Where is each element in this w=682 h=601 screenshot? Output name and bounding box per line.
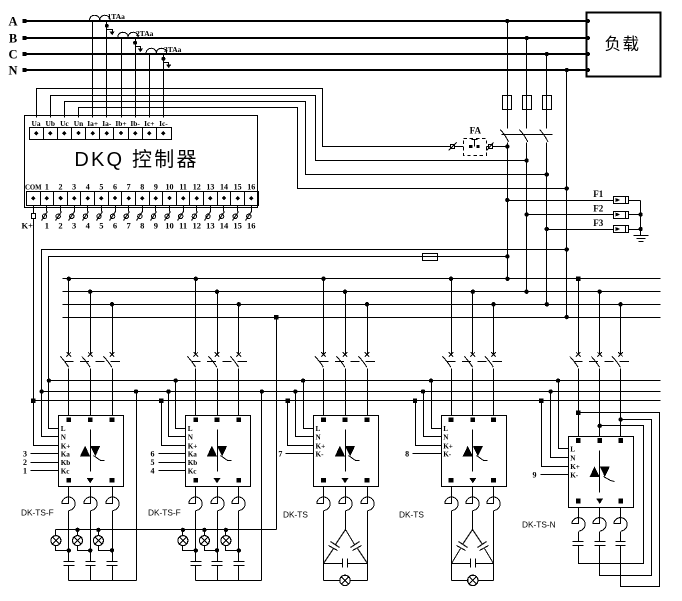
terminal strip: Ua Ub Uc Un Ia+ Ia- Ib+ Ib- Ic+ Ic-: [30, 128, 172, 140]
wire: U5 cap A loop to phase B drop: [579, 426, 644, 564]
wire: phase C main line: [24, 53, 587, 55]
capacitor C9 (delta bottom): [324, 563, 343, 565]
wire: L rail (module supply phase): [49, 380, 661, 382]
ground (earth symbol): [634, 235, 649, 237]
svg-text:DKQ 控制器: DKQ 控制器: [74, 148, 198, 171]
lamp HL (delta indicator): [324, 580, 341, 582]
junction: F1 branch on feeder: [505, 198, 509, 202]
capacitor C8 (delta side): [346, 530, 355, 545]
wire: right phase down to delta corner: [367, 511, 369, 581]
svg-text:11: 11: [179, 221, 187, 231]
capacitor C6: [234, 561, 245, 563]
wire: control stub 1 to U1: [31, 470, 59, 472]
transformer hook (module U3 output 367.0): [361, 487, 374, 511]
svg-text:15: 15: [233, 221, 242, 231]
wire: phase wire hook to capacitor: [195, 511, 197, 562]
svg-text:14: 14: [220, 221, 229, 231]
junction: lamp tap on lamp bus: [224, 528, 228, 532]
switch K12 (output link with slash): [196, 206, 198, 212]
svg-text:6: 6: [113, 183, 117, 192]
transformer hook (module U2 output 195.8): [189, 487, 202, 511]
wire: fuse to breaker contact: [507, 110, 509, 129]
switch K16 (output link with slash): [251, 206, 253, 212]
svg-text:2: 2: [58, 221, 62, 231]
svg-text:Ib-: Ib-: [130, 119, 140, 128]
svg-text:K+: K+: [443, 442, 453, 450]
svg-text:1: 1: [23, 467, 27, 476]
wire: phase feeder from main to fuse: [507, 22, 509, 96]
wire: 2TAa secondary s2: [135, 39, 137, 118]
svg-text:Ia+: Ia+: [87, 119, 98, 128]
junction: neutral tap to feeder: [565, 68, 569, 72]
wire: control stub 3 to U1: [31, 453, 59, 455]
wire: phase wire hook to capacitor: [112, 511, 114, 562]
wire: capacitor to bottom bus: [238, 566, 240, 581]
svg-text:4: 4: [86, 183, 90, 192]
module U4 DK-TS phase drops with disconnect switches: [451, 279, 453, 354]
svg-text:FA: FA: [470, 126, 482, 136]
op-amp substitute: controller box DKQ 控制器: [25, 116, 258, 208]
svg-text:Ub: Ub: [45, 119, 54, 128]
svg-text:6: 6: [113, 221, 117, 231]
svg-text:COM: COM: [25, 185, 42, 192]
svg-text:负载: 负载: [605, 35, 641, 54]
junction: N feed on neutral feeder: [565, 247, 569, 251]
junction: U1 riser on N rail: [134, 389, 138, 393]
wire: Ub sense to phase B feeder: [51, 96, 527, 161]
svg-text:DK-TS-F: DK-TS-F: [21, 508, 54, 518]
wire: 1TAa secondary s1: [92, 22, 94, 118]
triac VT1 (inside module U1): [90, 430, 92, 472]
switch K4 (output link with slash): [87, 206, 89, 212]
svg-text:DK-TS: DK-TS: [399, 510, 424, 520]
switch QF pole 3 (breaker blade): [540, 130, 548, 142]
wire: module U1 capacitor common bus: [69, 580, 137, 582]
wire: 1TAa secondary s2: [106, 22, 108, 118]
wire: breaker to bus: [526, 143, 528, 292]
junction: bus taps for module U4: [449, 277, 453, 281]
wire: neutral feeder (straight to bus N): [566, 71, 568, 318]
junction: Uc line on phase C feeder: [545, 172, 549, 176]
svg-text:N: N: [61, 434, 67, 442]
junction: Un line on neutral feeder: [565, 186, 569, 190]
wire: control stub 2 to U1: [31, 462, 59, 464]
svg-text:16: 16: [247, 183, 255, 192]
wire: delta apex feed: [345, 511, 347, 530]
triac VT2 (inside module U2): [217, 430, 219, 472]
svg-text:9: 9: [533, 470, 537, 479]
wire: control stub 5 to U2: [159, 462, 186, 464]
svg-text:Un: Un: [74, 119, 83, 128]
junction: bus taps for module U5: [576, 277, 580, 281]
svg-text:Ka: Ka: [61, 451, 71, 459]
junction: phase B tap to feeder: [524, 36, 528, 40]
junction: F3 branch on feeder: [545, 227, 549, 231]
triac VT4 (inside module U4): [472, 430, 474, 472]
wire: breaker gang linkage (solid): [502, 134, 553, 136]
svg-text:3TAa: 3TAa: [164, 45, 182, 54]
svg-text:L: L: [570, 446, 575, 454]
svg-text:N: N: [570, 454, 576, 462]
svg-text:1: 1: [45, 183, 49, 192]
svg-text:Kb: Kb: [61, 459, 71, 467]
wire: switch gang dashed linkage (module U1): [65, 361, 126, 363]
svg-text:9: 9: [154, 221, 158, 231]
wire: K+ tap of U2 from K+ rail: [162, 401, 186, 446]
svg-text:Kc: Kc: [61, 468, 71, 476]
pin row: bottom terminals of U1: [67, 478, 72, 483]
terminal clamp (FA left): [451, 145, 455, 149]
wire: breaker to bus: [546, 143, 548, 305]
capacitor C2: [86, 561, 96, 563]
svg-text:Ua: Ua: [32, 119, 41, 128]
ground arrow (3TAa secondary earth): [161, 57, 165, 61]
wire: capacitor to bottom bus: [217, 566, 219, 581]
module U3 DK-TS phase drops with disconnect switches: [323, 279, 325, 354]
svg-text:4: 4: [151, 467, 155, 476]
wire: phase A main line: [24, 20, 587, 22]
svg-text:L: L: [443, 425, 448, 433]
pin row: bottom terminals of U3: [321, 478, 326, 483]
svg-text:10: 10: [166, 183, 174, 192]
wire: F3 to earth bus: [629, 229, 641, 231]
svg-text:8: 8: [140, 183, 144, 192]
wire: L tap of U4 from L rail: [432, 381, 442, 429]
junction: F2 branch on feeder: [524, 212, 528, 216]
transformer hook (module U4 output 493.5): [487, 487, 500, 511]
ground arrow (1TAa secondary earth): [105, 24, 109, 28]
junction: lamp on phase wire: [110, 548, 114, 552]
wire: control stub 7 to U3: [286, 453, 314, 455]
svg-text:L: L: [61, 425, 66, 433]
wire: N feed (corner) to neutral feeder: [42, 250, 567, 437]
svg-text:1: 1: [45, 221, 49, 231]
wire: N rail (module supply neutral): [42, 391, 661, 393]
module U4 box (DK-TS): [442, 416, 507, 487]
junction: loop on phase A drop: [576, 411, 580, 415]
switch K6 (output link with slash): [115, 206, 117, 212]
wire: Ua sense (terminal Ua up, over, down to FA contact line): [37, 89, 451, 147]
wire: fuse to breaker contact: [546, 110, 548, 129]
wire: Uc sense to phase C feeder: [65, 102, 547, 175]
junction: lamp tap on lamp bus: [96, 528, 100, 532]
pin row: bottom terminals of U5: [576, 499, 581, 504]
svg-text:15: 15: [234, 183, 242, 192]
lamp HL2 (indicator): [77, 530, 79, 536]
junction: bus taps for module U1: [67, 277, 71, 281]
svg-text:F1: F1: [593, 189, 603, 199]
wire: Un sense to neutral feeder: [79, 108, 567, 189]
module U1 DK-TS-F phase drops with disconnect switches: [68, 279, 70, 354]
pin row: top terminals of U5: [576, 438, 581, 443]
transformer hook (module U1 output 90.2): [84, 487, 97, 511]
junction: lamp tap on lamp bus: [75, 528, 79, 532]
svg-text:B: B: [9, 32, 17, 46]
wire: control stub 6 to U2: [159, 453, 186, 455]
svg-text:12: 12: [193, 183, 201, 192]
wire: K+ rail (control common): [34, 400, 661, 402]
junction: Ub line on phase B feeder: [524, 158, 528, 162]
svg-text:Ka: Ka: [188, 451, 198, 459]
svg-text:3: 3: [72, 183, 76, 192]
capacitor C13 (U5 phase A): [578, 532, 580, 542]
switch K2 (output link with slash): [60, 206, 62, 212]
load box 负载: [587, 13, 661, 77]
capacitor C3: [107, 561, 118, 563]
wire: capacitor to bottom bus: [90, 566, 92, 581]
svg-text:12: 12: [193, 221, 202, 231]
junction: U2 riser on N rail: [260, 389, 264, 393]
fuse FU2 (feeder fuse): [523, 96, 532, 110]
wire: capacitor to bottom bus: [195, 566, 197, 581]
capacitor C15 (U5 phase C): [620, 532, 622, 542]
wire: K+ tap of U5 from K+ rail: [542, 401, 569, 467]
svg-text:16: 16: [247, 221, 256, 231]
wire: lamp to phase wire: [99, 546, 113, 551]
transformer hook (module U2 output 217.0): [211, 487, 224, 511]
switch QF pole 1 (breaker blade): [500, 130, 508, 142]
junction: loop on phase C drop: [618, 417, 622, 421]
transformer hook (module U5 output 599.7): [593, 508, 606, 532]
transformer hook (module U4 output 472.8): [466, 487, 479, 511]
svg-text:3: 3: [72, 221, 76, 231]
junction: bus taps for module U2: [194, 277, 198, 281]
wire: bus B: [63, 291, 661, 293]
wire: F3 branch line: [547, 229, 614, 231]
junction: lamp on phase wire: [67, 548, 71, 552]
wire: U5 cap B loop to phase C drop: [600, 420, 652, 576]
wire: lamp to phase wire: [226, 546, 239, 551]
wire: Ua sense after FA to phase A feeder: [493, 146, 508, 148]
wire: right phase down to delta corner: [493, 511, 495, 581]
svg-text:1TAa: 1TAa: [108, 12, 126, 21]
current transformer 3TAa: [146, 48, 167, 53]
wire: 3TAa secondary s2: [163, 55, 165, 118]
switch K8 (output link with slash): [142, 206, 144, 212]
switch K1 (output link with slash): [46, 206, 48, 212]
wire: control stub 9 to U5: [541, 474, 569, 476]
switch K9 (output link with slash): [155, 206, 157, 212]
svg-text:DK-TS-F: DK-TS-F: [148, 508, 181, 518]
switch K3 (output link with slash): [74, 206, 76, 212]
transformer hook (module U2 output 238.8): [232, 487, 245, 511]
lamp HL3 (indicator): [98, 530, 100, 536]
svg-text:C: C: [8, 48, 17, 62]
lamp HL1 (indicator): [55, 530, 57, 536]
wire: U5 cap C loop to phase A drop: [579, 413, 660, 587]
lamp HL4 (indicator): [182, 530, 184, 536]
svg-text:N: N: [188, 434, 194, 442]
transformer hook (module U5 output 578.2): [572, 508, 585, 532]
svg-text:2: 2: [59, 183, 63, 192]
wire: L tap of U2 from L rail: [176, 381, 186, 429]
wire: left phase down to delta corner: [323, 511, 325, 581]
wire: phase B main line: [24, 37, 587, 39]
wire: delta apex feed: [472, 511, 474, 530]
junction: feeder B to bus B: [524, 290, 528, 294]
module U2 box (DK-TS-F): [186, 416, 251, 487]
svg-text:4: 4: [86, 221, 91, 231]
svg-text:7: 7: [127, 183, 131, 192]
svg-text:Ic-: Ic-: [159, 119, 168, 128]
junction: lamp tap on lamp bus: [202, 528, 206, 532]
svg-text:N: N: [316, 434, 322, 442]
svg-text:K+: K+: [316, 442, 326, 450]
wire: phase wire hook to capacitor: [90, 511, 92, 562]
ground arrow (2TAa secondary earth): [133, 41, 137, 45]
pin row: bottom terminals of U2: [194, 478, 199, 483]
switch K13 (output link with slash): [210, 206, 212, 212]
wire: phase wire hook to capacitor: [238, 511, 240, 562]
switch K14 (output link with slash): [223, 206, 225, 212]
svg-text:5: 5: [99, 221, 103, 231]
wire: K+ feed vertical from COM link down to K+ rail and module 1 pin: [34, 219, 59, 446]
capacitor C11 (delta side): [473, 530, 483, 545]
junction: module U1 K+ tap (rail start): [31, 399, 35, 403]
wire: N tap of U2 from N rail: [169, 392, 186, 437]
wire: bus N: [63, 317, 661, 319]
wire: control stub 8 to U4: [413, 453, 442, 455]
junction: loop on phase B drop: [598, 424, 602, 428]
svg-text:Uc: Uc: [60, 119, 69, 128]
junction: feeder N to bus N: [565, 315, 569, 319]
wire: K+ tap of U3 from K+ rail: [288, 401, 314, 446]
svg-text:14: 14: [220, 183, 228, 192]
svg-text:DK-TS-N: DK-TS-N: [522, 520, 556, 530]
capacitor C7 (delta side): [336, 530, 346, 545]
switch K7 (output link with slash): [128, 206, 130, 212]
capacitor C14 (U5 phase B): [599, 532, 601, 542]
svg-text:10: 10: [165, 221, 174, 231]
wire: bus A: [63, 278, 661, 280]
capacitor C5: [212, 561, 223, 563]
transformer hook (module U1 output 68.8): [62, 487, 75, 511]
svg-text:9: 9: [154, 183, 158, 192]
wire: control stub 4 to U2: [159, 470, 186, 472]
switch K11 (output link with slash): [183, 206, 185, 212]
svg-text:K-: K-: [570, 471, 579, 479]
terminal strip: COM 1..16: [27, 192, 259, 206]
junction: lamp bus riser on bus N: [274, 315, 278, 319]
transformer hook (module U3 output 323.5): [317, 487, 330, 511]
fuse FU4 (L feed fuse): [423, 254, 438, 261]
svg-text:L: L: [316, 425, 321, 433]
pin row: top terminals of U3: [321, 418, 326, 423]
fuse FU1 (feeder fuse): [503, 96, 512, 110]
wire: phase N main line: [24, 69, 587, 71]
capacitor C4: [191, 561, 202, 563]
triac VT3 (inside module U3): [345, 430, 347, 472]
svg-text:13: 13: [206, 183, 214, 192]
wire: capacitor to bottom bus: [68, 566, 70, 581]
svg-text:DK-TS: DK-TS: [283, 510, 308, 520]
svg-text:K+: K+: [188, 442, 198, 450]
switch K5 (output link with slash): [101, 206, 103, 212]
wire: indicator lamp bus: [56, 529, 277, 531]
pin row: top terminals of U4: [449, 418, 454, 423]
module U1 box (DK-TS-F): [59, 416, 124, 487]
wire: U1 common riser to N rail: [136, 392, 138, 581]
wire: N tap of U5 from N rail: [551, 392, 569, 458]
wire: switch gang dashed linkage (module U3): [320, 361, 381, 363]
svg-text:Ic+: Ic+: [144, 119, 154, 128]
junction: module U1 N tap (rail start): [39, 389, 43, 393]
wire: switch gang dashed linkage (module U2): [192, 361, 253, 363]
wire: left phase down to delta corner: [451, 511, 453, 581]
svg-text:8: 8: [405, 450, 409, 459]
wire: F2 to earth bus: [629, 214, 641, 216]
junction: feeder A to bus A: [505, 277, 509, 281]
junction: L feed on phase A feeder: [505, 254, 509, 258]
wire: phase wire hook to capacitor: [217, 511, 219, 562]
transformer hook (module U5 output 620.6): [614, 508, 627, 532]
svg-text:7: 7: [278, 450, 282, 459]
svg-text:Ia-: Ia-: [102, 119, 112, 128]
wire: L feed with fuse to phase A feeder: [49, 257, 508, 429]
wire: FA line gap segments: [455, 146, 464, 148]
junction: lamp on phase wire: [237, 548, 241, 552]
connector K+ (square link): [32, 214, 36, 219]
wire: F2 branch line: [527, 214, 614, 216]
wire: N tap of U4 from N rail: [424, 392, 442, 437]
svg-text:N: N: [443, 434, 449, 442]
fuse FU3 (feeder fuse): [543, 96, 552, 110]
wire: 3TAa secondary s1: [149, 55, 151, 118]
wire: lamp bus riser to bus N: [276, 318, 278, 530]
svg-text:K-: K-: [316, 451, 325, 459]
wire: F1 to earth bus: [629, 200, 641, 202]
module U5 DK-TS-N phase drops with disconnect switches: [578, 279, 580, 354]
svg-text:A: A: [8, 15, 17, 29]
wire: COM to K+ link: [33, 206, 35, 214]
wire: arrester common earth vertical: [640, 201, 642, 236]
pin row: top terminals of U2: [194, 418, 199, 423]
wire: lamp to phase wire: [56, 546, 69, 551]
wire: 2TAa secondary s1: [121, 39, 123, 118]
junction: phase A tap to feeder: [505, 19, 509, 23]
transformer hook (module U1 output 112.0): [106, 487, 119, 511]
wire: phase feeder from main to fuse: [546, 55, 548, 96]
svg-text:K+: K+: [21, 221, 33, 231]
junction: lamp on phase wire: [215, 548, 219, 552]
svg-text:5: 5: [99, 183, 103, 192]
pin row: bottom terminals of U4: [449, 478, 454, 483]
wire: L tap of U5 from L rail: [559, 381, 569, 449]
module U5 box (DK-TS-N): [569, 437, 634, 508]
wire: phase feeder from main to fuse: [526, 39, 528, 96]
svg-text:13: 13: [206, 221, 215, 231]
svg-text:K+: K+: [570, 463, 580, 471]
wire: switch gang dashed linkage (module U5): [574, 361, 635, 363]
terminal clamp (FA right): [489, 145, 493, 149]
wire: lamp to phase wire: [78, 546, 91, 551]
junction: F3 on earth vertical: [638, 227, 642, 231]
junction: Ua line on phase A feeder: [505, 144, 509, 148]
lamp HL6 (indicator): [225, 530, 227, 536]
wire: lamp to phase wire: [205, 546, 218, 551]
junction: module U1 L tap (rail start): [47, 378, 51, 382]
current transformer 2TAa: [118, 32, 139, 37]
lamp HL5 (indicator): [204, 530, 206, 536]
junction: lamp on phase wire: [194, 548, 198, 552]
wire: switch gang dashed linkage (module U4): [447, 361, 508, 363]
capacitor C12 (delta bottom): [452, 563, 471, 565]
capacitor C1: [64, 561, 75, 563]
switch QF pole 2 (breaker blade): [519, 130, 527, 142]
wire: breaker to bus: [507, 143, 509, 279]
svg-text:7: 7: [127, 221, 132, 231]
junction: lamp on phase wire: [88, 548, 92, 552]
